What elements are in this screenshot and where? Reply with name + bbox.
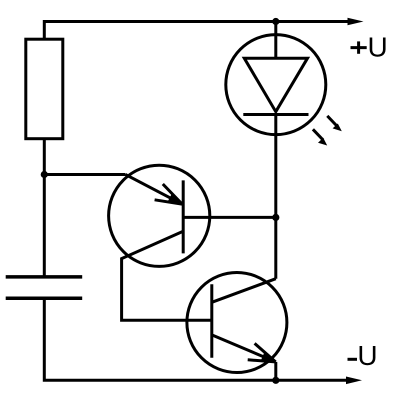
LED D1 cathode bar [243, 113, 308, 116]
LED light arrow upper [327, 116, 342, 131]
capacitor C1 [6, 277, 83, 298]
wire junction to Q1 emitter [44, 173, 125, 176]
+U supply arrowhead [348, 18, 364, 26]
label -U [348, 340, 378, 371]
wire Q2 emitter to bottom rail [274, 362, 277, 380]
svg-text:U: U [357, 340, 377, 371]
transistor Q2 collector line [212, 279, 276, 303]
wire Q1 base to rail [183, 216, 276, 219]
transistor Q1 base bar [182, 180, 185, 253]
node junction bottom rail [272, 377, 279, 384]
transistor Q2 emitter line [212, 335, 276, 362]
wire LED cathode down rail [274, 115, 277, 279]
transistor Q2 emitter arrow (NPN, outward) [248, 343, 276, 362]
wire Q1 collector to Q2 base [122, 231, 212, 320]
LED light arrow lower [313, 129, 327, 145]
transistor Q1 circle [109, 165, 210, 266]
transistor Q2 circle [187, 273, 287, 373]
LED D1 circle [226, 35, 326, 135]
node junction top rail [272, 18, 279, 25]
wire top rail +U [44, 22, 349, 40]
LED D1 triangle [244, 58, 307, 111]
transistor Q1 emitter line [126, 175, 183, 205]
node junction Q1 base / rail [272, 214, 279, 221]
wire resistor to capacitor [43, 139, 46, 277]
node junction left [41, 171, 48, 178]
-U supply arrowhead [346, 377, 362, 385]
label +U [351, 31, 388, 62]
resistor R1 [26, 39, 63, 139]
wire top rail to LED anode [274, 22, 277, 59]
transistor Q2 base bar [210, 284, 213, 358]
svg-text:U: U [368, 31, 388, 62]
wire bottom rail -U [44, 298, 346, 380]
transistor Q1 emitter arrow (PNP, into base) [155, 184, 183, 204]
